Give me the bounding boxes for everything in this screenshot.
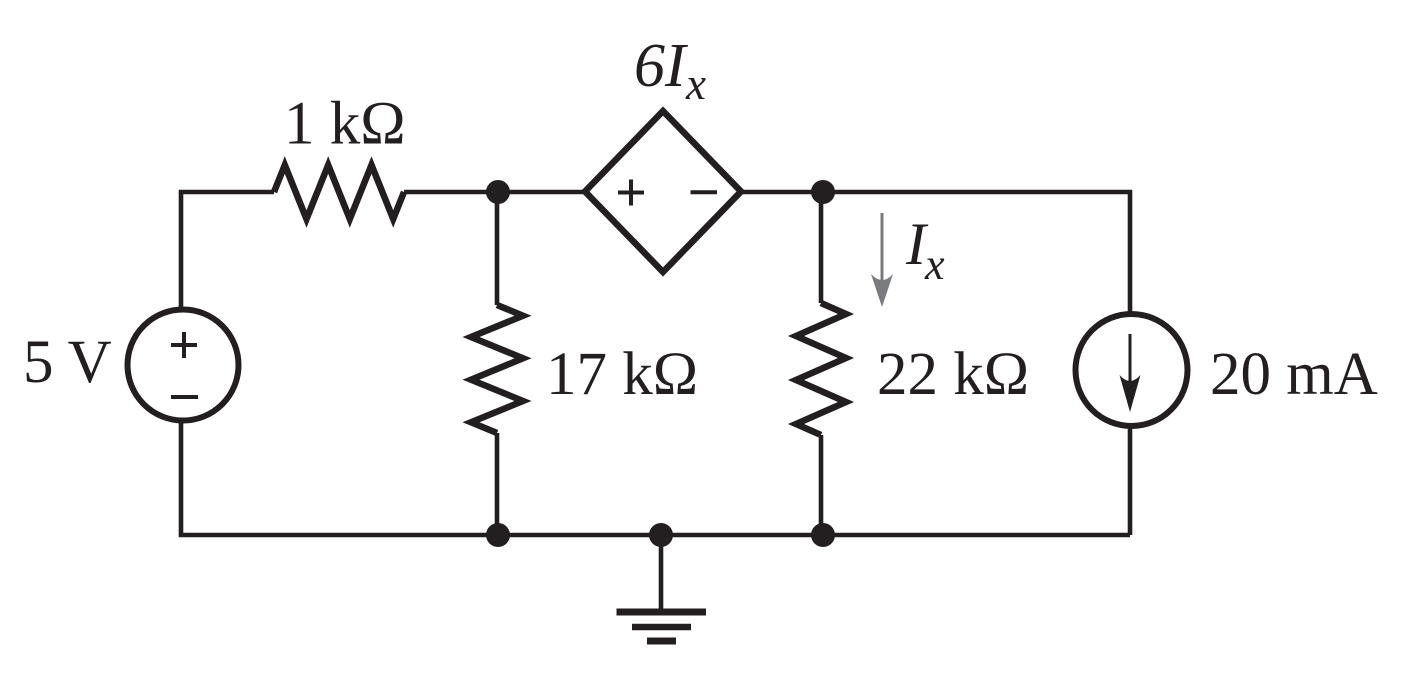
resistor R1 1 kOhm horizontal zigzag xyxy=(274,165,404,219)
wire lead bottom of 17k resistor xyxy=(495,433,500,535)
node A top of 17k resistor xyxy=(486,180,510,204)
dependent voltage source U1 diamond 6Ix xyxy=(585,111,741,272)
wire lead bottom of 22k resistor xyxy=(819,435,824,535)
wire lead top of 22k resistor xyxy=(819,192,824,303)
svg-text:5 V: 5 V xyxy=(23,329,112,396)
svg-text:17 kΩ: 17 kΩ xyxy=(546,341,698,408)
svg-text:20 mA: 20 mA xyxy=(1210,341,1378,408)
resistor R3 22 kOhm vertical zigzag xyxy=(796,303,846,435)
wire right-bottom vertical below current source xyxy=(1128,428,1133,535)
svg-text:1 kΩ: 1 kΩ xyxy=(284,91,406,158)
label Ix gray xyxy=(905,211,945,289)
svg-text:22 kΩ: 22 kΩ xyxy=(877,341,1029,408)
wire left vertical below voltage source xyxy=(181,423,1130,535)
svg-text:x: x xyxy=(924,240,945,289)
wire from R1 to diamond source xyxy=(404,190,585,195)
svg-text:x: x xyxy=(685,59,706,109)
minus sign inside diamond xyxy=(691,190,718,194)
wire from diamond to top-right corner xyxy=(741,192,1130,312)
svg-text:6I: 6I xyxy=(634,32,689,100)
resistor R2 17 kOhm vertical zigzag xyxy=(471,305,523,433)
node C bottom of 17k resistor xyxy=(486,523,510,547)
node B top of 22k resistor xyxy=(811,180,835,204)
current source I1 20mA circle xyxy=(1076,314,1188,426)
label 6Ix xyxy=(634,32,706,109)
plus sign inside diamond xyxy=(618,180,644,206)
wire top-left horizontal from source corner to resistor R1 xyxy=(181,192,274,307)
wire lead top of 17k resistor xyxy=(495,192,500,305)
node D ground junction xyxy=(649,523,673,547)
arrow inside current source xyxy=(1120,334,1141,412)
plus sign inside voltage source xyxy=(171,332,197,358)
voltage source V1 5V circle xyxy=(128,310,239,421)
current arrow Ix gray xyxy=(871,213,893,307)
ground xyxy=(617,535,707,641)
minus sign inside voltage source xyxy=(171,395,198,399)
node E bottom of 22k resistor xyxy=(811,523,835,547)
